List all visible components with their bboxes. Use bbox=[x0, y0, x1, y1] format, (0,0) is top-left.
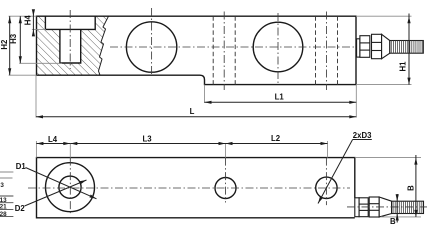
dimension L3 bbox=[70, 143, 225, 145]
svg-text:D2: D2 bbox=[15, 204, 26, 213]
svg-text:H2: H2 bbox=[0, 39, 9, 50]
hole A vertical centerline bbox=[69, 158, 71, 214]
cable gland top: hex nut 2 bbox=[369, 197, 379, 217]
counterbore hole A outer circle bbox=[46, 163, 95, 212]
counterbore recess (section) bbox=[45, 16, 95, 29]
dimension H1 bbox=[408, 14, 410, 85]
hole B vertical centerline bbox=[225, 158, 227, 203]
svg-text:28: 28 bbox=[0, 211, 7, 218]
B right extension lines bbox=[355, 157, 421, 159]
threaded blind hole (section) bbox=[60, 29, 81, 63]
svg-text:3: 3 bbox=[0, 182, 4, 189]
hole A inner circle bbox=[59, 176, 81, 198]
horizontal centerline side view bbox=[110, 46, 354, 48]
cable gland side: threaded spring section bbox=[390, 41, 424, 54]
svg-text:B: B bbox=[406, 185, 415, 191]
beam body side view outline bbox=[37, 16, 357, 84]
leader D1 bbox=[26, 168, 97, 199]
circle 1 vertical centerline bbox=[151, 8, 153, 75]
dimension H2 bbox=[9, 16, 11, 75]
svg-text:H1: H1 bbox=[399, 61, 408, 72]
svg-text:H4: H4 bbox=[24, 15, 33, 26]
cable gland side: hex nut 1 bbox=[360, 36, 370, 58]
cable gland top: strain relief taper bbox=[379, 197, 391, 217]
cable gland top: threaded spring section bbox=[392, 201, 424, 213]
svg-text:21: 21 bbox=[0, 204, 7, 211]
hole A vertical centerline (section) bbox=[69, 10, 71, 69]
dimension L2 bbox=[226, 143, 328, 145]
gland centerline top view bbox=[347, 206, 427, 208]
svg-text:L4: L4 bbox=[48, 135, 58, 144]
svg-text:L1: L1 bbox=[275, 93, 285, 102]
hole B circle bbox=[215, 178, 236, 199]
section break line bbox=[99, 16, 109, 75]
dimension L bbox=[36, 116, 356, 118]
cable gland side: strain relief taper bbox=[382, 34, 390, 58]
svg-text:L3: L3 bbox=[142, 134, 152, 143]
cable gland top: connector bbox=[355, 198, 359, 217]
horizontal centerline top view bbox=[28, 187, 350, 189]
hidden hole at L3 (dashed) bbox=[212, 16, 214, 84]
dimension L1 bbox=[205, 101, 357, 103]
dimension B bottom bbox=[396, 194, 398, 223]
leader 2xD3 bbox=[353, 139, 372, 141]
shear web circle 1 (side) bbox=[126, 22, 176, 72]
hatched cross-section of mounting end bbox=[37, 16, 109, 75]
dimension B right bbox=[415, 155, 417, 217]
circle 2 vertical centerline bbox=[277, 13, 279, 85]
hole C vertical centerline bbox=[325, 158, 327, 206]
extension lines for L4 L3 L2 bbox=[35, 141, 37, 158]
svg-text:B: B bbox=[390, 217, 396, 225]
svg-text:H3: H3 bbox=[9, 33, 18, 44]
leader D2 bbox=[25, 180, 87, 206]
hidden hole at L2 (dashed) bbox=[315, 16, 317, 84]
svg-text:L: L bbox=[190, 107, 195, 116]
extension lines left bbox=[9, 15, 37, 17]
dimension L4 bbox=[36, 143, 70, 145]
beam body top view bbox=[37, 158, 355, 218]
svg-text:2xD3: 2xD3 bbox=[353, 131, 372, 140]
H1 extension lines bbox=[356, 15, 412, 17]
L extension line left bbox=[35, 75, 37, 117]
table fragment rules bbox=[0, 172, 13, 178]
cable gland side: hex nut 2 bbox=[372, 34, 382, 58]
hole C circle bbox=[316, 177, 337, 198]
dimension H4 bbox=[32, 10, 34, 37]
shear web circle 2 (side) bbox=[253, 22, 303, 72]
dimension H3 bbox=[19, 16, 21, 63]
cable gland side: connector bbox=[357, 39, 360, 57]
L1 extension lines bbox=[204, 85, 206, 103]
svg-text:L2: L2 bbox=[271, 134, 281, 143]
cable gland top: hex nut 1 bbox=[359, 198, 368, 217]
svg-text:D1: D1 bbox=[16, 162, 27, 171]
